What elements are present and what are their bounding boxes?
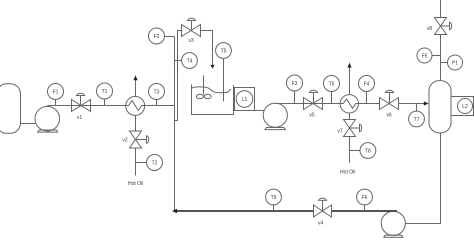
- svg-text:T1: T1: [102, 89, 108, 95]
- svg-text:T2: T2: [152, 161, 158, 167]
- svg-text:v2: v2: [122, 138, 128, 144]
- svg-text:F4: F4: [364, 82, 370, 88]
- svg-text:T3: T3: [154, 90, 160, 96]
- svg-text:F5: F5: [422, 54, 428, 60]
- svg-text:T6: T6: [329, 82, 335, 88]
- svg-text:T9: T9: [271, 195, 277, 201]
- svg-text:F3: F3: [292, 81, 298, 87]
- svg-text:Hot Oil: Hot Oil: [340, 170, 355, 176]
- svg-text:F1: F1: [53, 90, 59, 96]
- svg-text:L2: L2: [462, 104, 468, 110]
- svg-text:v8: v8: [427, 26, 433, 32]
- svg-text:v7: v7: [337, 128, 343, 134]
- svg-text:v6: v6: [386, 113, 392, 119]
- svg-text:F2: F2: [154, 34, 160, 40]
- svg-text:T4: T4: [187, 59, 193, 65]
- svg-text:T8: T8: [365, 149, 371, 155]
- svg-text:v5: v5: [309, 113, 315, 119]
- svg-text:Hot Oil: Hot Oil: [128, 181, 143, 187]
- svg-text:P1: P1: [452, 61, 458, 67]
- svg-text:v1: v1: [77, 115, 83, 121]
- svg-text:v4: v4: [318, 220, 324, 226]
- svg-text:L1: L1: [242, 97, 248, 103]
- svg-text:v3: v3: [188, 38, 194, 44]
- svg-text:T5: T5: [221, 49, 227, 55]
- svg-text:F6: F6: [362, 195, 368, 201]
- svg-text:T7: T7: [414, 117, 420, 123]
